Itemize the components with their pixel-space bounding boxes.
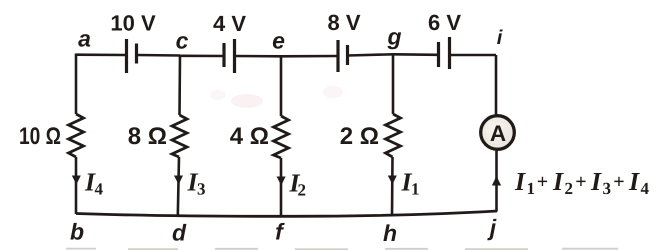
svg-text:8 Ω: 8 Ω [128, 123, 167, 150]
wire branch g-h lower lead [391, 157, 394, 216]
node label i [497, 27, 503, 49]
svg-text:f: f [275, 219, 285, 245]
svg-text:A: A [490, 121, 506, 146]
wire branch a-b upper lead [75, 54, 78, 115]
wire branch g-h upper lead [392, 55, 395, 115]
svg-text:i: i [497, 27, 503, 49]
battery B2 4 V [224, 39, 235, 73]
svg-text:h: h [383, 220, 397, 246]
wire battery 6V to node i [450, 54, 496, 57]
value label 10 ohm [19, 123, 61, 150]
wire battery 4V to node e [235, 55, 281, 58]
wire bottom b to j [76, 211, 497, 216]
value label 6 V [428, 10, 461, 35]
wire node g to battery 6V [393, 53, 437, 56]
node label d [172, 220, 187, 246]
svg-text:I: I [552, 167, 564, 196]
node label c [176, 28, 189, 54]
svg-text:8 V: 8 V [327, 10, 360, 35]
wire branch c-d upper lead [178, 55, 181, 115]
wire branch e-f lower lead [280, 158, 283, 217]
svg-text:1: 1 [527, 179, 536, 198]
wire node c to battery 4V [180, 54, 223, 57]
battery B1 10 V [127, 39, 137, 73]
current label I1 [401, 168, 420, 199]
current label I3 [187, 168, 206, 199]
svg-text:10 Ω: 10 Ω [19, 123, 61, 150]
svg-text:10 V: 10 V [110, 11, 156, 36]
svg-text:I: I [590, 167, 602, 196]
wire top a to battery 10V [76, 53, 126, 56]
wire node i to ammeter [495, 55, 498, 117]
svg-text:I: I [514, 167, 526, 196]
node label a [78, 26, 91, 52]
svg-text:+: + [575, 171, 586, 193]
node label b [70, 219, 84, 245]
svg-text:2: 2 [298, 181, 307, 200]
value label 8 V [327, 10, 360, 35]
resistor R1 2 ohm [386, 114, 401, 157]
svg-text:g: g [386, 24, 401, 50]
node label j [487, 215, 497, 241]
wire branch a-b lower lead [75, 157, 78, 214]
resistor R4 10 ohm [69, 114, 84, 157]
svg-text:2: 2 [565, 179, 574, 198]
value label 8 ohm [128, 123, 167, 150]
svg-text:a: a [78, 26, 91, 52]
svg-text:+: + [613, 171, 624, 193]
value label 4 ohm [230, 123, 269, 150]
value label 10 V [110, 11, 156, 36]
current arrow sum (upward) [492, 176, 501, 186]
svg-text:6 V: 6 V [428, 10, 461, 35]
resistor R3 8 ohm [172, 115, 187, 157]
wire ammeter to node j [495, 150, 498, 212]
svg-text:I: I [628, 167, 640, 196]
svg-text:4: 4 [641, 179, 650, 198]
current label I4 [84, 168, 104, 199]
svg-text:3: 3 [603, 179, 612, 198]
svg-text:1: 1 [411, 180, 420, 199]
value label 2 ohm [340, 123, 379, 150]
battery B3 8 V [338, 40, 348, 72]
wire branch c-d lower lead [178, 157, 179, 216]
current label I1+I2+I3+I4 [514, 167, 650, 198]
svg-text:3: 3 [197, 180, 206, 199]
wire branch e-f upper lead [280, 56, 283, 116]
svg-text:e: e [272, 28, 285, 54]
svg-text:4 V: 4 V [213, 11, 246, 36]
node label f [275, 219, 285, 245]
svg-text:c: c [176, 28, 189, 54]
svg-text:j: j [487, 215, 497, 241]
wire node e to battery 8V [281, 55, 337, 58]
wire battery 10V to node c [137, 54, 180, 57]
wire battery 8V to node g [348, 54, 393, 55]
svg-text:+: + [537, 171, 548, 193]
current arrow I1 [388, 176, 397, 185]
svg-text:d: d [172, 220, 187, 246]
ammeter A [481, 116, 515, 150]
current arrow I3 [174, 176, 183, 185]
battery B4 6 V [439, 37, 450, 69]
node label e [272, 28, 285, 54]
current arrow I4 [72, 176, 81, 185]
svg-text:2 Ω: 2 Ω [340, 123, 379, 150]
node label g [386, 24, 401, 50]
current label I2 [289, 169, 307, 200]
resistor R2 4 ohm [274, 116, 289, 158]
value label 4 V [213, 11, 246, 36]
svg-text:4: 4 [95, 180, 104, 199]
svg-text:4 Ω: 4 Ω [230, 123, 269, 150]
node label h [383, 220, 397, 246]
current arrow I2 [277, 177, 286, 186]
svg-text:b: b [70, 219, 84, 245]
